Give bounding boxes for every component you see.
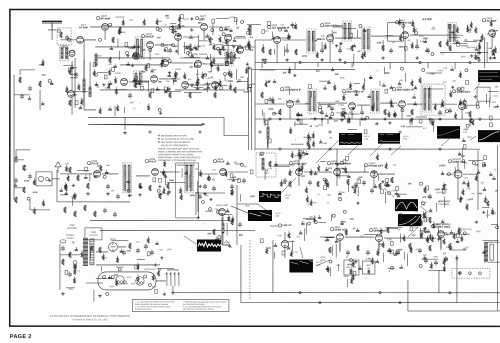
svg-text:INTERLOCK: INTERLOCK bbox=[144, 269, 156, 271]
trap dashed enclosure bbox=[256, 153, 276, 177]
svg-text:6.8K: 6.8K bbox=[129, 20, 134, 22]
wire drops bbox=[340, 238, 441, 250]
svg-text:6.8K: 6.8K bbox=[268, 168, 273, 170]
svg-text:3.3K: 3.3K bbox=[423, 254, 428, 256]
ground bbox=[138, 193, 142, 197]
label V13 bbox=[87, 161, 99, 166]
wire video IF row bbox=[255, 103, 477, 105]
svg-text:3.3K: 3.3K bbox=[493, 96, 498, 98]
svg-text:100K: 100K bbox=[167, 249, 172, 251]
capacitor X bbox=[444, 256, 448, 262]
component group vert osc stage fill bbox=[437, 156, 489, 212]
capacitor X bbox=[116, 194, 120, 200]
waveform photo W9 bbox=[197, 239, 222, 251]
waveform photo W11 bbox=[478, 70, 500, 82]
svg-text:PAGE 2: PAGE 2 bbox=[10, 334, 32, 340]
label V108 bbox=[452, 88, 470, 94]
svg-text:VERT: VERT bbox=[366, 265, 372, 267]
component group row band B bbox=[95, 72, 245, 91]
wire leader box6 bbox=[231, 206, 248, 213]
yoke plug dashed box bbox=[452, 269, 490, 279]
fuse bbox=[60, 240, 66, 243]
resistor X bbox=[382, 45, 384, 51]
svg-text:1 MEG: 1 MEG bbox=[128, 48, 135, 50]
svg-text:6.8K: 6.8K bbox=[172, 78, 177, 80]
capacitor X bbox=[477, 50, 481, 56]
waveform photo W10 bbox=[289, 260, 313, 273]
ground bbox=[261, 58, 265, 62]
svg-text:VIDEO DET: VIDEO DET bbox=[456, 90, 470, 94]
resistor X bbox=[74, 211, 76, 217]
wire video IF drops bbox=[290, 108, 462, 119]
wire vert osc bbox=[446, 150, 478, 210]
svg-text:33K: 33K bbox=[408, 183, 412, 185]
component group between rails A bbox=[265, 121, 333, 150]
speaker terminal box bbox=[36, 172, 52, 186]
capacitor X bbox=[268, 97, 272, 103]
capacitor X bbox=[448, 108, 452, 114]
filter capacitors C301 bbox=[165, 270, 179, 286]
component group video amp block bbox=[197, 205, 251, 247]
svg-text:6.8K: 6.8K bbox=[33, 192, 38, 194]
svg-text:3.3K: 3.3K bbox=[228, 34, 233, 36]
resistor X bbox=[424, 212, 426, 218]
svg-text:270K: 270K bbox=[243, 92, 249, 94]
ground bbox=[415, 56, 419, 60]
component group tuner-osc west bbox=[98, 18, 152, 60]
label V101 bbox=[267, 24, 289, 30]
resistor R1 bbox=[60, 32, 62, 38]
transformer T4 bbox=[122, 163, 131, 193]
ground bbox=[438, 117, 442, 121]
notes text block 2 bbox=[158, 147, 203, 162]
component group tuner column bbox=[63, 65, 87, 109]
wire vertical drop x408 bbox=[407, 280, 409, 311]
svg-text:270K: 270K bbox=[466, 188, 471, 190]
resistor X bbox=[23, 165, 25, 171]
resistor X bbox=[139, 183, 141, 189]
wire interstage bbox=[90, 27, 228, 60]
label V vert osc label bbox=[448, 159, 465, 164]
tube V21 bbox=[376, 235, 383, 242]
tuner dashed enclosure bbox=[57, 28, 71, 45]
resistor R bbox=[112, 37, 114, 43]
wire B+ rail video IF section bbox=[255, 118, 500, 120]
ground bbox=[61, 292, 65, 296]
capacitor X bbox=[68, 272, 72, 278]
tube V vert osc bbox=[454, 170, 462, 178]
ground bbox=[171, 291, 175, 295]
ground bbox=[98, 294, 102, 298]
tube V10 bbox=[151, 76, 158, 83]
svg-text:V 60: V 60 bbox=[275, 216, 279, 218]
svg-text:270K: 270K bbox=[208, 39, 214, 41]
wire AGC line bbox=[57, 201, 130, 203]
svg-text:PIX IF: PIX IF bbox=[149, 160, 157, 164]
resistor X bbox=[65, 185, 67, 191]
svg-text:3.3K: 3.3K bbox=[400, 126, 405, 128]
svg-text:POWER: POWER bbox=[66, 235, 75, 237]
svg-text:56K: 56K bbox=[335, 74, 339, 76]
svg-text:3.3K: 3.3K bbox=[219, 30, 224, 32]
svg-text:NOTES: VOLTAGES MAY VARY WITH: NOTES: VOLTAGES MAY VARY WITH LINE bbox=[158, 147, 200, 150]
component group boost sync bbox=[264, 150, 391, 196]
capacitor X bbox=[136, 248, 140, 254]
wire B+ rail sound section bbox=[255, 62, 500, 64]
svg-text:1ST VIDEO IF: 1ST VIDEO IF bbox=[284, 88, 301, 92]
wire leader bbox=[384, 188, 428, 237]
waveform photo W6 bbox=[248, 210, 272, 221]
resistor R bbox=[269, 161, 271, 167]
ground bbox=[106, 192, 110, 196]
wire vert row bbox=[320, 234, 470, 238]
ground bbox=[203, 192, 207, 196]
svg-text:V 60: V 60 bbox=[316, 265, 320, 267]
wire sync row bbox=[276, 165, 395, 174]
tube V1 bbox=[102, 24, 109, 31]
tube V18 bbox=[334, 169, 341, 176]
tube V3 bbox=[175, 34, 182, 41]
resistor X bbox=[449, 243, 451, 249]
wire video line bbox=[90, 219, 230, 221]
power transformer T301 bbox=[83, 238, 94, 266]
coil L5 peaking bbox=[222, 223, 224, 233]
capacitor X bbox=[346, 250, 350, 256]
svg-text:6.8K: 6.8K bbox=[169, 180, 174, 182]
resistor X bbox=[449, 45, 451, 51]
ground bbox=[86, 192, 90, 196]
tube V17 bbox=[296, 169, 303, 176]
label V106 bbox=[342, 89, 363, 94]
tube V20 bbox=[337, 234, 344, 241]
svg-text:A PHOTOFACT STANDARDIZED SCHEM: A PHOTOFACT STANDARDIZED SCHEMATIC PHOTO… bbox=[50, 314, 130, 318]
wire bbox=[195, 192, 225, 215]
resistor X bbox=[341, 111, 343, 117]
svg-text:100K: 100K bbox=[131, 283, 136, 285]
svg-text:270K: 270K bbox=[24, 180, 30, 182]
resistor X bbox=[69, 167, 71, 173]
resistor X bbox=[424, 187, 426, 193]
label V19 bbox=[364, 162, 383, 168]
capacitor X bbox=[144, 244, 148, 250]
wire stubs under sound rail bbox=[262, 63, 455, 70]
resistor X bbox=[84, 205, 86, 211]
waveform photo W5 bbox=[259, 191, 282, 202]
svg-text:TRANS: TRANS bbox=[66, 237, 74, 240]
svg-text:5600: 5600 bbox=[342, 169, 348, 171]
resistor R bbox=[234, 87, 236, 93]
resistor X bbox=[387, 227, 389, 233]
transformer T103 bbox=[448, 23, 457, 44]
transformer T105 bbox=[371, 89, 380, 113]
svg-text:33K: 33K bbox=[492, 213, 496, 215]
wire right edge vertical bbox=[496, 145, 498, 311]
resistor X bbox=[77, 175, 79, 181]
antenna small bbox=[55, 162, 61, 173]
label V21 bbox=[369, 228, 387, 233]
svg-text:MEASURED WITH VTVM: MEASURED WITH VTVM bbox=[161, 135, 186, 138]
capacitor X bbox=[389, 48, 393, 54]
svg-text:VIDEO AMP: VIDEO AMP bbox=[216, 204, 229, 207]
wire long vertical A bbox=[248, 68, 250, 150]
svg-text:LINE AC: LINE AC bbox=[282, 224, 291, 227]
svg-text:270K: 270K bbox=[277, 235, 282, 237]
svg-text:100K: 100K bbox=[190, 195, 196, 197]
ratio det enclosure bbox=[388, 23, 404, 42]
resistor R bbox=[109, 57, 111, 63]
svg-text:3.3K: 3.3K bbox=[201, 45, 206, 47]
tube V7 bbox=[162, 60, 169, 67]
svg-text:6.8K: 6.8K bbox=[259, 155, 264, 157]
resistor X bbox=[23, 187, 25, 193]
svg-text:6.8K: 6.8K bbox=[94, 172, 99, 174]
svg-text:6.8K: 6.8K bbox=[158, 194, 163, 196]
wire rail bbox=[252, 69, 355, 71]
component group boost power bbox=[66, 241, 166, 296]
component group between rails B bbox=[334, 116, 434, 134]
svg-text:VERT SUPPLY: VERT SUPPLY bbox=[435, 224, 451, 226]
svg-text:5600: 5600 bbox=[385, 73, 391, 75]
tube V mixer half bbox=[69, 50, 75, 56]
svg-text:6.8K: 6.8K bbox=[420, 41, 425, 43]
svg-text:1 MEG: 1 MEG bbox=[437, 70, 444, 72]
svg-text:10K: 10K bbox=[114, 275, 118, 277]
tube V2 bbox=[147, 42, 154, 49]
capacitor X bbox=[424, 258, 428, 264]
tube V13 bbox=[94, 171, 101, 178]
svg-text:270K: 270K bbox=[421, 104, 426, 106]
wire leader bbox=[474, 83, 480, 90]
resistor R vert lin bbox=[368, 270, 370, 274]
svg-text:1 MEG: 1 MEG bbox=[70, 95, 77, 97]
wire bbox=[222, 217, 230, 245]
svg-text:VERT: VERT bbox=[320, 257, 326, 259]
capacitor X bbox=[242, 178, 246, 184]
wire ground drop bbox=[124, 117, 126, 130]
ground bbox=[338, 58, 342, 62]
resistor X bbox=[62, 259, 64, 265]
component group sync out gap fill bbox=[301, 194, 346, 241]
wire vertical drop x241 bbox=[240, 245, 242, 303]
svg-text:WHEN SIGNAL LEVELS ARE REFEREN: WHEN SIGNAL LEVELS ARE REFERENCED bbox=[158, 156, 201, 159]
component group under IF band bbox=[295, 98, 469, 126]
resistor X bbox=[159, 193, 161, 199]
resistor X bbox=[317, 181, 319, 187]
svg-text:100K: 100K bbox=[205, 35, 210, 37]
wire vertical drop x457 bbox=[456, 255, 458, 303]
svg-text:3.3K: 3.3K bbox=[105, 172, 110, 174]
vert output transformer T201 bbox=[484, 242, 493, 262]
svg-text:100K: 100K bbox=[245, 205, 250, 207]
video det enclosure bbox=[477, 87, 490, 101]
wire leader bbox=[300, 247, 330, 266]
resistor X bbox=[15, 197, 17, 203]
svg-text:270K: 270K bbox=[430, 73, 436, 75]
capacitor X bbox=[212, 186, 216, 192]
svg-text:10K: 10K bbox=[379, 244, 383, 246]
component group video det out column bbox=[470, 86, 499, 127]
wire tuner column bbox=[52, 23, 96, 115]
svg-text:56K: 56K bbox=[209, 44, 213, 46]
component group right edge column bbox=[475, 162, 499, 233]
capacitor X bbox=[308, 180, 312, 186]
wire long vertical B bbox=[251, 68, 253, 150]
ground bbox=[230, 192, 234, 196]
resistor X bbox=[99, 247, 101, 253]
resistor R bbox=[169, 92, 171, 98]
capacitor X bbox=[418, 248, 422, 254]
svg-text:3.3K: 3.3K bbox=[366, 258, 371, 260]
label V107 bbox=[392, 87, 413, 92]
svg-text:V 60: V 60 bbox=[424, 220, 428, 222]
resistor X bbox=[39, 81, 41, 87]
svg-text:6.8K: 6.8K bbox=[338, 197, 343, 199]
svg-text:56K: 56K bbox=[198, 23, 202, 25]
capacitor X bbox=[106, 184, 110, 190]
component group pix IF left block bbox=[59, 163, 253, 206]
svg-text:1 MEG: 1 MEG bbox=[439, 165, 446, 167]
component group boost pix IF bbox=[60, 160, 255, 201]
wire vertical drop x273 bbox=[272, 240, 274, 293]
wire left column bbox=[16, 70, 60, 210]
resistor R bbox=[213, 229, 215, 235]
tube V107 bbox=[399, 101, 406, 108]
svg-text:USED BEATS AGAINST A 4.5 SIGNA: USED BEATS AGAINST A 4.5 SIGNAL bbox=[158, 153, 195, 156]
resistor X bbox=[411, 109, 413, 115]
waveform photo W8 bbox=[398, 214, 421, 226]
wire dashed vertical bbox=[249, 240, 251, 300]
svg-text:100K: 100K bbox=[268, 109, 274, 111]
capacitor X bbox=[14, 178, 18, 184]
transformer dashed enclosure T106 bbox=[421, 84, 445, 115]
svg-text:AM TRAP: AM TRAP bbox=[115, 16, 125, 19]
svg-text:OTHERWISE NOTED.: OTHERWISE NOTED. bbox=[135, 309, 153, 311]
wire B+ bus main bbox=[241, 302, 500, 304]
capacitor X bbox=[203, 184, 207, 190]
capacitor X bbox=[103, 208, 107, 214]
wire sync section rail bbox=[255, 148, 480, 150]
resistor R bbox=[69, 100, 71, 106]
svg-text:100K: 100K bbox=[413, 227, 418, 229]
svg-text:MODEL 2 SHOWN. SWITCH IN NORMA: MODEL 2 SHOWN. SWITCH IN NORMAL POS. bbox=[158, 150, 203, 153]
resistor X bbox=[64, 207, 66, 213]
wire interstage bbox=[120, 63, 224, 85]
svg-text:DC VOLTAGES AT 117V AC LINE: DC VOLTAGES AT 117V AC LINE bbox=[161, 138, 194, 141]
svg-text:VERT OSC: VERT OSC bbox=[452, 160, 465, 164]
component group boost vert bbox=[336, 227, 467, 270]
component group vert input parts bbox=[260, 230, 302, 258]
tube V104 bbox=[489, 30, 496, 37]
pix IF output enclosure bbox=[176, 163, 199, 218]
resistor X bbox=[351, 45, 353, 51]
svg-text:270K: 270K bbox=[466, 200, 471, 202]
coil L sound takeoff bbox=[267, 127, 269, 139]
filament loop bbox=[98, 272, 156, 290]
capacitor X bbox=[122, 250, 126, 256]
svg-text:270K: 270K bbox=[419, 36, 424, 38]
transformer T101 bbox=[307, 29, 316, 53]
svg-text:1 MEG: 1 MEG bbox=[226, 81, 233, 83]
capacitor X bbox=[285, 48, 289, 54]
svg-text:6.3V: 6.3V bbox=[127, 277, 132, 279]
ground bbox=[410, 117, 414, 121]
wire stubs under rail bbox=[265, 119, 470, 126]
waveform photo W3 bbox=[437, 126, 460, 139]
label V103 bbox=[395, 19, 413, 25]
capacitor X bbox=[113, 212, 117, 218]
waveform photo W4 bbox=[478, 130, 500, 142]
wire vertical drop bbox=[222, 215, 224, 245]
tube V4 bbox=[201, 24, 208, 31]
tube V5B bbox=[237, 47, 244, 54]
ground bbox=[340, 118, 344, 122]
component group vert block bbox=[324, 228, 469, 276]
svg-text:100K: 100K bbox=[433, 256, 438, 258]
ground mid bbox=[123, 131, 127, 135]
balun dashed enclosure bbox=[60, 45, 69, 61]
heater symbol bbox=[116, 276, 124, 284]
capacitor X bbox=[388, 248, 392, 254]
svg-text:6.8K: 6.8K bbox=[130, 102, 135, 104]
svg-text:VALUE OF COMPONENTS: VALUE OF COMPONENTS bbox=[161, 144, 188, 147]
svg-text:RF AMP: RF AMP bbox=[79, 26, 88, 29]
component group tuner-osc block bbox=[156, 14, 261, 59]
coil L6 bbox=[262, 158, 264, 170]
wire AGC return line bbox=[88, 117, 249, 135]
rectifier tube V301 5U4G bbox=[109, 243, 118, 252]
label V22 bbox=[431, 224, 450, 229]
wire interstage bbox=[95, 27, 246, 47]
svg-text:V 60: V 60 bbox=[403, 139, 407, 141]
resistor X bbox=[129, 243, 131, 249]
capacitor X bbox=[20, 94, 24, 100]
svg-text:6CB6: 6CB6 bbox=[175, 69, 181, 71]
wire vert input bbox=[270, 226, 285, 258]
component group bus-top parts bbox=[344, 266, 368, 287]
resistor X bbox=[347, 179, 349, 185]
resistor X bbox=[149, 185, 151, 191]
tube V106 bbox=[349, 103, 356, 110]
resistor R bbox=[214, 92, 216, 98]
resistor X bbox=[329, 247, 331, 253]
resistor X bbox=[409, 243, 411, 249]
label V3 bbox=[169, 25, 181, 31]
label V105 bbox=[280, 87, 301, 92]
tube V11 bbox=[182, 82, 189, 89]
svg-text:PHASE DET: PHASE DET bbox=[368, 164, 383, 168]
capacitor X bbox=[354, 182, 358, 188]
resistor X bbox=[279, 109, 281, 115]
component group power block bbox=[65, 236, 174, 302]
svg-text:1 MEG: 1 MEG bbox=[139, 71, 146, 73]
resistor X bbox=[262, 47, 264, 53]
resistor X bbox=[357, 245, 359, 251]
svg-text:270K: 270K bbox=[346, 49, 351, 51]
capacitor X bbox=[438, 110, 442, 116]
wire left column link bbox=[14, 75, 30, 200]
component group boost video IF bbox=[263, 67, 468, 118]
resistor R bbox=[231, 219, 233, 225]
resistor R bbox=[189, 45, 191, 51]
ground bbox=[320, 117, 324, 121]
coil L4 bbox=[249, 25, 251, 35]
wire af amp links bbox=[440, 37, 492, 68]
wire sound row bbox=[255, 35, 482, 40]
svg-text:V 60: V 60 bbox=[224, 245, 228, 247]
wire sound drops bbox=[277, 39, 487, 63]
label V102 bbox=[320, 22, 343, 28]
capacitor X bbox=[426, 48, 430, 54]
